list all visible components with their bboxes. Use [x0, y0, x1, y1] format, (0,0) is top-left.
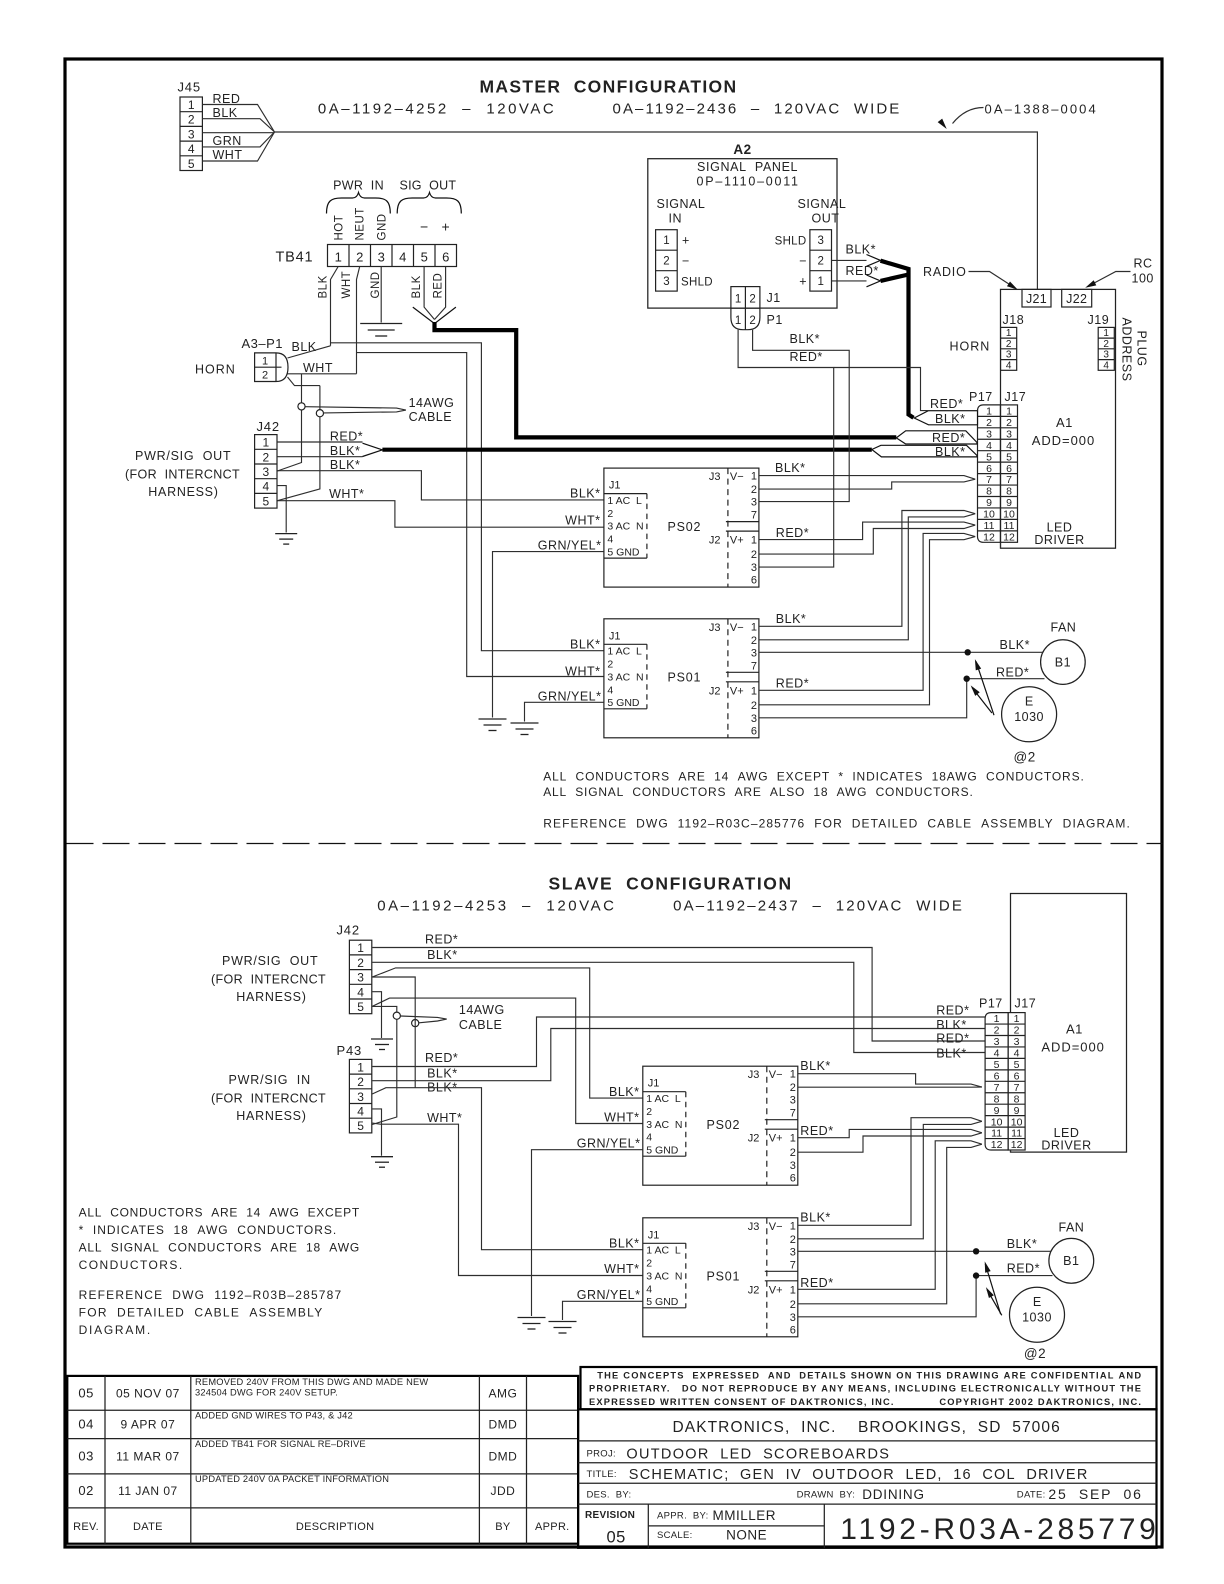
- svg-text:P17: P17: [979, 997, 1003, 1011]
- svg-text:GRN/YEL*: GRN/YEL*: [538, 689, 602, 703]
- svg-text:ADD=000: ADD=000: [1032, 433, 1095, 448]
- svg-text:BLK*: BLK*: [330, 444, 361, 458]
- wire PS01 J2-3 to fan RED*: [759, 679, 1045, 718]
- svg-text:DMD: DMD: [488, 1450, 517, 1464]
- svg-text:WHT*: WHT*: [604, 1111, 639, 1125]
- svg-text:SIGNAL: SIGNAL: [798, 197, 847, 211]
- svg-text:J17: J17: [1005, 390, 1027, 404]
- svg-text:GND: GND: [377, 213, 389, 240]
- svg-text:BLK*: BLK*: [790, 332, 821, 346]
- svg-text:11 MAR 07: 11 MAR 07: [116, 1450, 180, 1464]
- svg-text:SIGNAL: SIGNAL: [657, 197, 706, 211]
- svg-text:SLAVE CONFIGURATION: SLAVE CONFIGURATION: [549, 874, 793, 894]
- svg-text:DIAGRAM.: DIAGRAM.: [79, 1323, 151, 1337]
- E1030 leader arrows: [976, 662, 994, 716]
- svg-text:2: 2: [749, 294, 755, 306]
- svg-text:SHLD: SHLD: [681, 277, 713, 289]
- svg-text:ADDED TB41 FOR SIGNAL RE–DRIVE: ADDED TB41 FOR SIGNAL RE–DRIVE: [195, 1439, 366, 1449]
- wire P1 RED* into pin1: [834, 368, 978, 411]
- svg-text:REFERENCE DWG 1192–R03B–2857: REFERENCE DWG 1192–R03B–285787: [79, 1288, 342, 1302]
- wire J42 pin4 to ground: [277, 486, 286, 533]
- svg-text:9 APR 07: 9 APR 07: [121, 1418, 176, 1432]
- svg-text:HARNESS): HARNESS): [236, 990, 306, 1004]
- cable junction circle B: [316, 410, 323, 417]
- wire P43 pin3 to PS01s AC L: [372, 1088, 643, 1250]
- wire J42s pin4 to ground: [372, 992, 381, 1038]
- pair arrow P17 4-5: [872, 445, 977, 457]
- power supply PS01 slave: [643, 1218, 798, 1337]
- wire WHT horizontal to horn pin2: [288, 373, 357, 375]
- sig-out pair V arrow: [413, 307, 456, 324]
- 14AWG cable pointer: [305, 407, 406, 413]
- svg-text:CABLE: CABLE: [459, 1018, 503, 1032]
- wire J45 pin4: [202, 132, 274, 147]
- svg-text:WHT: WHT: [303, 361, 333, 375]
- svg-text:GRN: GRN: [213, 134, 242, 148]
- svg-text:BLK*: BLK*: [800, 1211, 831, 1225]
- wire P43 pin2 to P17s pin2: [372, 1029, 985, 1081]
- ground TB41: [360, 324, 402, 337]
- wire PS01s J2-1 to P17s pin12: [798, 1141, 982, 1290]
- svg-text:DATE: DATE: [133, 1521, 163, 1533]
- wire TB41 pin3 GND down: [380, 267, 382, 323]
- revision cell: [647, 1504, 649, 1548]
- wire P1 pin1 RED* to PS02 J2-3: [738, 330, 834, 567]
- svg-text:A1: A1: [1066, 1022, 1083, 1037]
- svg-text:FAN: FAN: [1059, 1221, 1085, 1235]
- svg-text:GRN/YEL*: GRN/YEL*: [577, 1136, 641, 1150]
- svg-text:DRIVER: DRIVER: [1041, 1139, 1091, 1153]
- wire GRN/YEL* PS02 to ground: [493, 552, 604, 718]
- svg-text:THE CONCEPTS EXPRESSED AND: THE CONCEPTS EXPRESSED AND DETAILS SHOWN…: [597, 1370, 1141, 1380]
- svg-text:WHT*: WHT*: [565, 664, 600, 678]
- junction dot RED* slave: [973, 1272, 979, 1278]
- svg-text:PWR/SIG IN: PWR/SIG IN: [229, 1073, 311, 1087]
- wire P43 pin1 to P17s pin1: [372, 1017, 985, 1067]
- svg-text:P1: P1: [767, 313, 783, 327]
- svg-text:AMG: AMG: [488, 1387, 517, 1401]
- wire TB41 pin1 BLK down: [331, 267, 339, 346]
- svg-text:SIGNAL PANEL: SIGNAL PANEL: [697, 160, 798, 174]
- svg-text:3: 3: [378, 250, 385, 265]
- svg-text:TB41: TB41: [276, 250, 314, 266]
- svg-text:(FOR INTERCNCT: (FOR INTERCNCT: [211, 972, 326, 986]
- svg-text:ALL SIGNAL CONDUCTORS ARE: ALL SIGNAL CONDUCTORS ARE ALSO 18 AWG CO…: [543, 785, 973, 799]
- svg-text:HARNESS): HARNESS): [148, 485, 218, 499]
- proj row: [578, 1462, 1156, 1464]
- svg-text:PWR/SIG OUT: PWR/SIG OUT: [135, 449, 231, 463]
- svg-text:2: 2: [356, 250, 363, 265]
- pair arrow P17 3-4: [896, 431, 977, 444]
- svg-text:3: 3: [663, 276, 669, 288]
- svg-text:GRN/YEL*: GRN/YEL*: [577, 1288, 641, 1302]
- wire TB41 pin5 down: [424, 267, 434, 320]
- svg-text:HARNESS): HARNESS): [236, 1109, 306, 1123]
- svg-text:PS02: PS02: [668, 520, 702, 534]
- confidentiality box: [581, 1367, 1157, 1409]
- svg-text:REFERENCE DWG 1192–R03C–2857: REFERENCE DWG 1192–R03C–285776 FOR DETAI…: [543, 817, 1130, 831]
- svg-text:RED*: RED*: [776, 526, 809, 540]
- wire J45 pin2: [202, 119, 274, 132]
- svg-text:B1: B1: [1063, 1254, 1079, 1268]
- svg-text:SCHEMATIC; GEN IV OUTDOOR: SCHEMATIC; GEN IV OUTDOOR LED, 16 COL DR…: [629, 1467, 1088, 1483]
- svg-text:PROJ:: PROJ:: [587, 1449, 616, 1460]
- svg-text:BLK*: BLK*: [609, 1236, 640, 1250]
- svg-text:DDINING: DDINING: [862, 1487, 925, 1502]
- svg-text:0A–1192–4252 – 120VAC: 0A–1192–4252 – 120VAC: [318, 101, 555, 118]
- svg-text:RC: RC: [1134, 257, 1153, 271]
- svg-text:FOR DETAILED CABLE ASSEMBLY: FOR DETAILED CABLE ASSEMBLY: [79, 1306, 323, 1320]
- wire PS02 J2-2 to P17 pin11: [759, 525, 975, 554]
- wire PS01s J3-1 to P17s pin10: [798, 1118, 982, 1226]
- svg-text:0A–1192–2436 – 120VAC WIDE: 0A–1192–2436 – 120VAC WIDE: [613, 101, 901, 118]
- wire J42s pin2 to P17 pin4: [372, 962, 985, 1052]
- svg-text:1: 1: [335, 250, 342, 265]
- svg-text:REV.: REV.: [73, 1521, 99, 1533]
- svg-text:SHLD: SHLD: [775, 236, 807, 248]
- svg-text:1: 1: [735, 294, 741, 306]
- revision table: [67, 1376, 578, 1544]
- device circle E 1030: [1002, 687, 1057, 742]
- svg-text:BLK*: BLK*: [846, 243, 877, 257]
- svg-text:WHT*: WHT*: [427, 1111, 462, 1125]
- svg-text:NONE: NONE: [726, 1528, 767, 1543]
- svg-text:FAN: FAN: [1051, 621, 1077, 635]
- svg-text:BY: BY: [495, 1521, 511, 1533]
- svg-text:PLUG: PLUG: [1135, 331, 1149, 367]
- ground PS01: [511, 723, 539, 735]
- LED driver A1 box: [1001, 289, 1116, 548]
- svg-text:BLK*: BLK*: [330, 458, 361, 472]
- connector J22: [1062, 289, 1092, 307]
- thick cable TB41 sig-out to P17 arrow: [435, 322, 897, 437]
- svg-text:PROPRIETARY. DO NOT REPRODUC: PROPRIETARY. DO NOT REPRODUCE BY ANY MEA…: [589, 1384, 1141, 1394]
- wire J42s pin5 WHT* to PS02s AC N: [372, 998, 643, 1123]
- connector J21: [1022, 289, 1051, 307]
- power supply PS01: [604, 619, 759, 738]
- svg-text:EXPRESSED WRITTEN CONSENT OF D: EXPRESSED WRITTEN CONSENT OF DAKTRONICS,…: [589, 1397, 1141, 1407]
- wire J17s bottom to box: [1010, 1150, 1012, 1152]
- power supply PS02: [604, 468, 759, 587]
- svg-text:WHT*: WHT*: [329, 487, 364, 501]
- wire P43 pin5 WHT* to PS01s AC N: [372, 1123, 643, 1275]
- wire PS02s J3-2 to P17s pin7: [798, 1086, 982, 1088]
- brace PWR IN: [327, 193, 391, 214]
- wire P1 pin2 BLK* to PS02 J3-3: [753, 330, 850, 502]
- svg-text:E: E: [1033, 1295, 1041, 1309]
- wire horn pin2 branch down: [288, 377, 320, 386]
- svg-text:05 NOV 07: 05 NOV 07: [116, 1387, 180, 1401]
- svg-text:BLK*: BLK*: [936, 1018, 967, 1032]
- ground J42: [275, 534, 297, 545]
- svg-text:−: −: [799, 254, 806, 268]
- wire TB41 pin6 down: [435, 267, 446, 320]
- svg-text:PS01: PS01: [707, 1270, 741, 1284]
- svg-text:BLK*: BLK*: [935, 445, 966, 459]
- svg-text:PWR/SIG OUT: PWR/SIG OUT: [222, 954, 318, 968]
- svg-text:RADIO: RADIO: [923, 265, 967, 279]
- wire PS02s J2-2 to P17s pin11: [798, 1133, 982, 1152]
- svg-text:BLK*: BLK*: [570, 487, 601, 501]
- svg-text:04: 04: [78, 1417, 93, 1432]
- svg-text:J42: J42: [337, 923, 360, 938]
- device circle E 1030 slave: [1010, 1287, 1065, 1342]
- svg-text:SIG OUT: SIG OUT: [400, 179, 457, 193]
- svg-text:BLK*: BLK*: [935, 412, 966, 426]
- svg-text:4: 4: [399, 250, 406, 265]
- svg-text:DES. BY:: DES. BY:: [587, 1490, 632, 1501]
- wire J45 pin5: [202, 132, 274, 161]
- title block outline: [578, 1409, 1156, 1548]
- svg-text:JDD: JDD: [490, 1484, 515, 1498]
- svg-text:ALL CONDUCTORS ARE 14 AWG: ALL CONDUCTORS ARE 14 AWG EXCEPT: [79, 1206, 360, 1220]
- svg-text:BLK*: BLK*: [570, 637, 601, 651]
- svg-text:@2: @2: [1024, 1346, 1046, 1361]
- wire GRN/YEL* PS01s to ground: [563, 1301, 643, 1320]
- pass-through wire J42s pin3 to P43 pin3: [372, 977, 415, 1088]
- svg-text:J21: J21: [1026, 292, 1047, 306]
- svg-text:14AWG: 14AWG: [459, 1003, 505, 1017]
- wire PS02s J2-1 to P17s pin11: [798, 1129, 982, 1137]
- pair arrows signal out: [867, 255, 881, 267]
- brace SIG OUT: [397, 193, 461, 214]
- svg-text:SCALE:: SCALE:: [657, 1530, 693, 1541]
- svg-text:5: 5: [421, 250, 428, 265]
- svg-text:A2: A2: [733, 142, 751, 157]
- svg-text:11 JAN 07: 11 JAN 07: [118, 1484, 178, 1498]
- company row: [578, 1440, 1156, 1442]
- svg-text:ALL CONDUCTORS ARE 14 AWG: ALL CONDUCTORS ARE 14 AWG EXCEPT * INDIC…: [543, 770, 1084, 784]
- pass-through wire J42s pin5 to P43 pin5: [372, 1006, 397, 1124]
- svg-text:ADD=000: ADD=000: [1041, 1039, 1104, 1054]
- svg-text:PS01: PS01: [668, 671, 702, 685]
- wire J17 bottom to box: [1000, 542, 1002, 548]
- svg-text:BLK*: BLK*: [776, 612, 807, 626]
- junction dot BLK* slave: [973, 1248, 979, 1254]
- signal panel A2 box: [648, 159, 837, 308]
- svg-text:0A–1192–2437 – 120VAC WIDE: 0A–1192–2437 – 120VAC WIDE: [673, 898, 963, 915]
- ground PS02 slave: [518, 1318, 546, 1330]
- svg-text:25 SEP 06: 25 SEP 06: [1048, 1486, 1141, 1502]
- svg-text:WHT*: WHT*: [565, 514, 600, 528]
- svg-text:TITLE:: TITLE:: [587, 1469, 617, 1480]
- wire branch to PS01 AC L: [331, 343, 604, 651]
- svg-text:DAKTRONICS, INC. BROOKINGS: DAKTRONICS, INC. BROOKINGS, SD 57006: [673, 1419, 1061, 1436]
- svg-text:DRIVER: DRIVER: [1034, 533, 1084, 547]
- svg-text:BLK*: BLK*: [800, 1059, 831, 1073]
- connector J1/P1: [731, 287, 760, 309]
- svg-text:+: +: [799, 275, 806, 289]
- svg-text:1: 1: [735, 315, 741, 327]
- wire GRN/YEL* PS01 to ground: [525, 702, 604, 721]
- svg-text:RED*: RED*: [800, 1276, 833, 1290]
- svg-text:J18: J18: [1003, 313, 1025, 327]
- wire signal out pin2: [832, 259, 867, 261]
- svg-text:BLK*: BLK*: [1007, 1237, 1037, 1251]
- wire PS01 J2-2 to P17 pin12: [759, 537, 975, 705]
- master/slave section divider: [67, 843, 1163, 845]
- wire PS01 J3-1 to P17 pin10: [759, 511, 975, 627]
- svg-text:−: −: [682, 254, 689, 268]
- svg-text:ADDRESS: ADDRESS: [1120, 318, 1134, 382]
- pair arrow J42 1-2: [363, 443, 383, 456]
- svg-text:RED*: RED*: [790, 350, 823, 364]
- wire J42s pin1 to P17 pin3: [372, 948, 985, 1042]
- vertical wire to J42 pin3: [277, 374, 301, 471]
- svg-text:HOT: HOT: [334, 215, 346, 241]
- svg-text:RED: RED: [213, 92, 241, 106]
- svg-text:P43: P43: [337, 1043, 363, 1058]
- 14AWG cable pointer slave: [401, 1016, 447, 1023]
- wire GRN/YEL* PS02s to ground: [532, 1150, 643, 1316]
- power supply PS02 slave: [643, 1066, 798, 1185]
- svg-text:2: 2: [749, 315, 755, 327]
- fan B1 circle: [1041, 640, 1086, 685]
- svg-text:RED*: RED*: [1007, 1262, 1040, 1276]
- svg-text:+: +: [442, 219, 450, 235]
- junction circle A slave: [393, 1012, 400, 1019]
- wire TB41 pin2 WHT down: [357, 267, 360, 374]
- svg-text:BLK: BLK: [292, 340, 317, 354]
- wire BLK diagonal to horn pin1: [288, 346, 331, 358]
- svg-text:MMILLER: MMILLER: [713, 1508, 777, 1523]
- fan B1 circle slave: [1049, 1238, 1094, 1283]
- appr/scale cell: [823, 1504, 825, 1548]
- svg-text:RED*: RED*: [936, 1032, 969, 1046]
- svg-text:−: −: [420, 219, 428, 235]
- svg-text:1: 1: [817, 276, 823, 288]
- svg-text:OUT: OUT: [812, 212, 840, 226]
- svg-text:GRN/YEL*: GRN/YEL*: [538, 539, 602, 553]
- wire PS01 J2-1 to P17 pin12: [759, 533, 975, 690]
- svg-text:UPDATED 240V 0A PACKET INFORMA: UPDATED 240V 0A PACKET INFORMATION: [195, 1474, 389, 1484]
- svg-text:0A–1388–0004: 0A–1388–0004: [985, 102, 1097, 117]
- svg-text:1192-R03A-285779: 1192-R03A-285779: [840, 1513, 1158, 1546]
- svg-text:WHT: WHT: [213, 148, 243, 162]
- wire PS01s J3-3 to fan BLK*: [798, 1250, 1051, 1252]
- svg-text:HORN: HORN: [950, 340, 991, 354]
- svg-text:J22: J22: [1066, 292, 1087, 306]
- wire J42 pin5 WHT* to PS02 AC N: [277, 501, 604, 528]
- signal in connector: [656, 230, 678, 291]
- svg-text:BLK*: BLK*: [775, 461, 806, 475]
- junction dot BLK*: [965, 649, 971, 655]
- thick cable J42 pair to P17 arrow: [382, 448, 871, 452]
- wire PS01 J3-3 to fan BLK*: [759, 651, 1043, 653]
- svg-text:BLK*: BLK*: [427, 1066, 458, 1080]
- wire P43 pin4 to ground: [372, 1109, 381, 1156]
- svg-text:0A–1192–4253 – 120VAC: 0A–1192–4253 – 120VAC: [377, 898, 615, 915]
- svg-text:DMD: DMD: [488, 1418, 517, 1432]
- svg-text:BLK*: BLK*: [936, 1047, 967, 1061]
- svg-text:RED*: RED*: [996, 666, 1029, 680]
- svg-text:BLK*: BLK*: [609, 1085, 640, 1099]
- ground PS02: [479, 719, 507, 731]
- connector P17/J17 slave: [985, 1013, 1025, 1152]
- svg-text:3: 3: [817, 235, 823, 247]
- svg-text:APPR. BY:: APPR. BY:: [657, 1511, 709, 1522]
- svg-text:REVISION: REVISION: [585, 1510, 635, 1521]
- svg-text:REMOVED 240V FROM THIS DWG AND: REMOVED 240V FROM THIS DWG AND MADE NEW: [195, 1377, 428, 1387]
- svg-text:6: 6: [442, 250, 449, 265]
- svg-text:0P–1110–0011: 0P–1110–0011: [697, 174, 799, 188]
- svg-text:BLK*: BLK*: [1000, 638, 1031, 652]
- wire PS01s J2-3 to fan RED*: [798, 1276, 1053, 1317]
- wire PS02 J3-2 to P17 pin7: [759, 479, 975, 489]
- wire signal out pin1: [832, 280, 867, 282]
- ground P43: [371, 1157, 393, 1168]
- svg-text:RED*: RED*: [330, 429, 363, 443]
- svg-text:DRAWN BY:: DRAWN BY:: [797, 1490, 856, 1501]
- svg-text:E: E: [1025, 695, 1033, 709]
- wire PS02 J2-1 to P17 pin11: [759, 522, 975, 540]
- svg-text:GND: GND: [370, 271, 382, 298]
- svg-text:03: 03: [78, 1449, 93, 1464]
- svg-text:BLK: BLK: [411, 275, 423, 298]
- svg-text:OUTDOOR LED SCOREBOARDS: OUTDOOR LED SCOREBOARDS: [626, 1447, 889, 1463]
- svg-text:A3–P1: A3–P1: [242, 336, 284, 351]
- svg-text:RED*: RED*: [936, 1004, 969, 1018]
- ground PS01 slave: [549, 1322, 577, 1334]
- svg-text:100: 100: [1132, 272, 1154, 286]
- pair arrow P17 1-2: [914, 411, 977, 425]
- svg-text:2: 2: [817, 256, 823, 268]
- svg-text:RED*: RED*: [930, 397, 963, 411]
- junction dot RED*: [964, 676, 970, 682]
- svg-text:1: 1: [663, 235, 669, 247]
- svg-text:RED: RED: [433, 273, 445, 299]
- svg-text:BLK: BLK: [318, 275, 330, 298]
- svg-text:J42: J42: [257, 419, 280, 434]
- svg-text:J45: J45: [178, 80, 201, 95]
- svg-text:+: +: [682, 234, 689, 248]
- svg-text:PS02: PS02: [707, 1118, 741, 1132]
- wire J42 pin3 BLK* to PS02 AC L: [277, 471, 604, 500]
- svg-text:CONDUCTORS.: CONDUCTORS.: [79, 1258, 183, 1272]
- svg-text:(FOR INTERCNCT: (FOR INTERCNCT: [211, 1092, 326, 1106]
- svg-text:BLK: BLK: [213, 106, 238, 120]
- wire J42s pin3 to PS02 AC L: [372, 968, 643, 1098]
- svg-text:@2: @2: [1014, 750, 1036, 765]
- svg-text:CABLE: CABLE: [409, 410, 453, 424]
- svg-text:PWR IN: PWR IN: [333, 179, 384, 193]
- svg-text:MASTER CONFIGURATION: MASTER CONFIGURATION: [480, 77, 738, 97]
- svg-text:RED*: RED*: [425, 1051, 458, 1065]
- svg-text:ADDED GND WIRES TO P43, & J42: ADDED GND WIRES TO P43, & J42: [195, 1411, 353, 1421]
- svg-text:BLK*: BLK*: [427, 948, 458, 962]
- svg-text:APPR.: APPR.: [535, 1521, 570, 1533]
- svg-text:(FOR INTERCNCT: (FOR INTERCNCT: [125, 467, 240, 481]
- svg-text:NEUT: NEUT: [355, 207, 367, 240]
- svg-text:05: 05: [78, 1386, 93, 1401]
- cable junction circle A: [298, 403, 305, 410]
- wire PS01s J2-2 to P17s pin12: [798, 1144, 982, 1304]
- svg-text:RED*: RED*: [800, 1124, 833, 1138]
- wire J45 pin1: [202, 105, 274, 133]
- svg-text:P17: P17: [969, 390, 993, 404]
- svg-text:RED*: RED*: [846, 264, 879, 278]
- svg-text:2: 2: [262, 370, 268, 382]
- wire J42 pin1 to pair arrow: [277, 441, 362, 443]
- LED driver A1 slave box: [1011, 894, 1127, 1153]
- svg-text:324504 DWG FOR 240V SETUP.: 324504 DWG FOR 240V SETUP.: [195, 1388, 338, 1398]
- svg-text:WHT*: WHT*: [604, 1262, 639, 1276]
- svg-text:1030: 1030: [1014, 710, 1044, 724]
- svg-text:DATE:: DATE:: [1017, 1490, 1046, 1501]
- svg-text:* INDICATES 18 AWG CONDUCT: * INDICATES 18 AWG CONDUCTORS.: [79, 1223, 337, 1237]
- wire branch to PS01 AC N: [357, 353, 604, 677]
- E1030 leader arrows slave: [985, 1264, 1000, 1314]
